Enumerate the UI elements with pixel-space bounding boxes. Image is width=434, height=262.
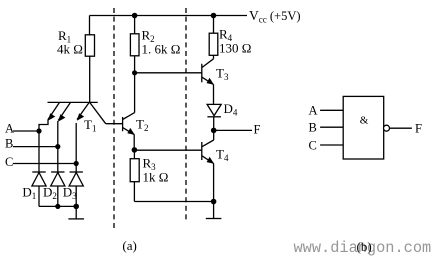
wire T1 collector to T2 base xyxy=(106,123,123,125)
dashed separator left xyxy=(113,8,115,230)
wire output to F xyxy=(214,129,252,131)
transistor T1 base bar xyxy=(48,101,98,103)
transistor T2 emitter arrowhead xyxy=(127,128,135,135)
transistor T3 collector xyxy=(202,59,214,68)
wire R4 top xyxy=(213,16,215,34)
gate input C wire xyxy=(320,144,343,146)
svg-text:F: F xyxy=(254,123,261,137)
node top rail R4 dot xyxy=(211,13,217,19)
svg-text:(b): (b) xyxy=(357,239,372,254)
diode D2 triangle xyxy=(51,173,65,187)
svg-text:B: B xyxy=(5,137,13,151)
gate output F wire xyxy=(390,127,412,129)
gate input B wire xyxy=(320,126,343,128)
diode D1 cathode bar xyxy=(32,171,45,173)
resistor R1 xyxy=(85,35,94,56)
wire to T3 base xyxy=(135,72,202,74)
svg-text:Vcc (+5V): Vcc (+5V) xyxy=(249,8,301,25)
diode D3 triangle xyxy=(69,173,83,187)
node output F dot xyxy=(211,128,217,134)
wire D2 bottom xyxy=(57,186,59,206)
wire D4 to output node xyxy=(213,117,215,140)
node C junction dot xyxy=(74,161,79,166)
wire R4 bottom to T3 collector xyxy=(213,55,215,59)
node T2e-R3 junction dot xyxy=(132,147,138,153)
node T4 emitter-ground dot xyxy=(211,199,217,205)
transistor T1 emitter 2 xyxy=(58,102,70,120)
wire T2 emitter down xyxy=(133,134,135,150)
wire top rail Vcc xyxy=(90,15,248,17)
svg-text:D1: D1 xyxy=(22,185,36,202)
svg-text:T2: T2 xyxy=(136,117,148,134)
wire R1 bottom to T1 base xyxy=(89,56,91,102)
gate inversion bubble xyxy=(384,125,390,131)
wire R1 top xyxy=(89,16,91,35)
node rail-D3 junction dot xyxy=(73,204,79,210)
svg-text:T3: T3 xyxy=(216,66,229,83)
transistor T1 collector xyxy=(90,102,106,123)
wire bottom-left rail xyxy=(39,205,76,207)
svg-text:A: A xyxy=(5,122,14,136)
wire D3 bottom xyxy=(75,186,77,206)
diode D4 cathode bar xyxy=(207,116,221,118)
diode D4 triangle xyxy=(207,104,221,115)
ground left lead xyxy=(75,206,77,219)
svg-text:130 Ω: 130 Ω xyxy=(219,41,251,56)
wire R3 bottom xyxy=(133,182,135,202)
transistor T3 base bar xyxy=(201,64,203,83)
svg-text:1k Ω: 1k Ω xyxy=(143,170,169,185)
wire R2 bottom to T2 collector xyxy=(134,56,136,113)
wire input B xyxy=(13,146,58,148)
wire to T4 base xyxy=(134,149,201,151)
wire D1 bottom xyxy=(38,186,40,206)
transistor T1 emitter 3 xyxy=(77,102,89,119)
svg-text:(a): (a) xyxy=(122,238,136,253)
transistor T1 emitter 2 arrowhead xyxy=(58,114,65,121)
transistor T1 emitter 1 arrowhead xyxy=(48,113,55,120)
svg-text:C: C xyxy=(309,139,317,153)
node R2-T3 base junction dot xyxy=(132,70,137,75)
svg-text:B: B xyxy=(309,121,317,135)
transistor T2 base bar xyxy=(122,117,124,131)
resistor R3 xyxy=(130,159,139,182)
node top rail R2 dot xyxy=(132,13,138,19)
wire input A xyxy=(13,130,39,132)
transistor T4 emitter xyxy=(202,156,214,164)
resistor R2 xyxy=(130,34,139,56)
diode D1 triangle xyxy=(32,173,46,187)
gate input A wire xyxy=(320,109,343,111)
ground left bar xyxy=(68,218,84,220)
svg-text:&: & xyxy=(360,115,369,127)
svg-text:T1: T1 xyxy=(84,117,96,134)
svg-text:F: F xyxy=(415,122,422,136)
wire R2 top xyxy=(134,16,136,34)
transistor T4 base bar xyxy=(201,142,203,160)
svg-text:D2: D2 xyxy=(43,185,57,202)
resistor R4 xyxy=(209,33,218,55)
wire R3 top xyxy=(133,150,135,159)
svg-text:T4: T4 xyxy=(216,147,229,164)
svg-text:D3: D3 xyxy=(63,185,77,202)
svg-text:A: A xyxy=(309,104,318,118)
wire input C xyxy=(13,163,76,165)
svg-text:4k Ω: 4k Ω xyxy=(57,42,83,57)
transistor T2 collector xyxy=(123,113,135,120)
wire bottom-right rail xyxy=(134,201,213,203)
transistor T4 emitter arrowhead xyxy=(207,157,215,164)
wire column 3 xyxy=(75,123,77,172)
transistor T1 emitter 3 arrowhead xyxy=(77,113,84,120)
wire column 1 elbow xyxy=(39,120,48,173)
svg-text:C: C xyxy=(5,155,13,169)
transistor T3 emitter xyxy=(202,77,214,84)
node A junction dot xyxy=(36,128,41,133)
ground right lead xyxy=(213,202,215,219)
node B junction dot xyxy=(55,144,60,149)
wire column 2 xyxy=(57,121,59,172)
transistor T1 emitter 1 xyxy=(48,102,60,119)
svg-text:D4: D4 xyxy=(224,101,238,118)
wire T4 emitter down xyxy=(213,164,215,202)
gate box (b) xyxy=(343,96,384,159)
svg-text:1. 6k Ω: 1. 6k Ω xyxy=(142,42,181,57)
wire T3 emitter to D4 xyxy=(213,85,215,105)
transistor T4 collector xyxy=(202,140,214,147)
diode D3 cathode bar xyxy=(70,171,83,173)
ground right bar xyxy=(206,218,222,220)
transistor T2 emitter xyxy=(123,128,135,135)
node rail-D2 junction dot xyxy=(55,204,60,209)
diode D2 cathode bar xyxy=(51,171,64,173)
dashed separator right xyxy=(185,8,187,223)
transistor T3 emitter arrowhead xyxy=(207,78,215,85)
